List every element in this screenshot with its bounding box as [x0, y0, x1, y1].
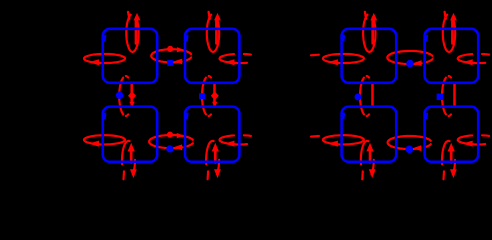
- plaquette P2 (left lattice, top-right): [185, 29, 239, 83]
- current loop around vertical bond P6-P8: [442, 76, 455, 116]
- current loop around horizontal bond P5-P6: [387, 51, 432, 66]
- plaquette P7 (right lattice, bottom-left): [342, 107, 397, 162]
- current loop around right bond of P6: [458, 54, 489, 65]
- current loop around bottom bond of P4: [206, 141, 221, 180]
- plaquette P8 (right lattice, bottom-right): [425, 107, 479, 162]
- current loop around top bond of P2: [207, 12, 221, 52]
- site marker (square) on bond P6-P8: [437, 94, 443, 100]
- bond-direction arrow on left edge of plaquette P2: [184, 35, 189, 41]
- current loop around vertical bond P5-P7: [360, 76, 373, 116]
- site marker (square) on bond P2-P4: [199, 93, 205, 99]
- current loop around left bond of P7: [311, 135, 364, 146]
- current loop around right bond of P4: [220, 135, 251, 146]
- bond-direction arrow on left edge of plaquette P6: [424, 35, 429, 41]
- current loop around right bond of P8: [458, 135, 489, 146]
- bond-direction arrow on left edge of plaquette P1: [102, 35, 107, 41]
- bond-direction arrow on left edge of plaquette P3: [102, 113, 107, 119]
- current loop around top bond of P5: [363, 12, 377, 52]
- current loop around vertical bond P2-P4: [202, 76, 219, 116]
- plaquette P4 (left lattice, bottom-right): [185, 107, 239, 162]
- current loop around left bond of P5: [311, 54, 364, 65]
- site marker (circle) on bond P3-P4: [166, 145, 173, 152]
- current loop around horizontal bond P7-P8: [388, 136, 431, 151]
- site marker (circle) on bond P1-P3: [116, 92, 123, 99]
- current loop around top bond of P6: [443, 12, 457, 52]
- current loop around bottom bond of P7: [361, 141, 376, 180]
- plaquette P5 (right lattice, top-left): [342, 29, 397, 83]
- bond-direction arrow on left edge of plaquette P5: [341, 35, 346, 41]
- current loop around bottom bond of P8: [442, 141, 457, 180]
- current loop around horizontal bond P3-P4: [149, 132, 193, 151]
- current loop around right bond of P2: [220, 54, 251, 65]
- bond-direction arrow on left edge of plaquette P7: [341, 113, 346, 119]
- bond-direction arrow on left edge of plaquette P8: [424, 113, 429, 119]
- current loop around left bond of P3: [84, 135, 125, 146]
- site marker (circle) on bond P5-P6: [406, 60, 414, 68]
- current loop around top bond of P1: [126, 12, 140, 52]
- site marker (circle) on bond P7-P8: [406, 146, 414, 154]
- site marker (square) on bond P1-P2: [167, 60, 173, 66]
- plaquette P3 (left lattice, bottom-left): [103, 107, 157, 162]
- plaquette P6 (right lattice, top-right): [425, 29, 479, 83]
- current loop around bottom bond of P3: [122, 141, 137, 180]
- current loop around left bond of P1: [84, 54, 125, 65]
- current loop around vertical bond P1-P3: [119, 76, 136, 116]
- plaquette P1 (left lattice, top-left): [103, 29, 157, 83]
- bond-direction arrow on left edge of plaquette P4: [184, 113, 189, 119]
- current loop around horizontal bond P1-P2: [151, 46, 191, 65]
- site marker (circle) on bond P5-P7: [355, 94, 362, 101]
